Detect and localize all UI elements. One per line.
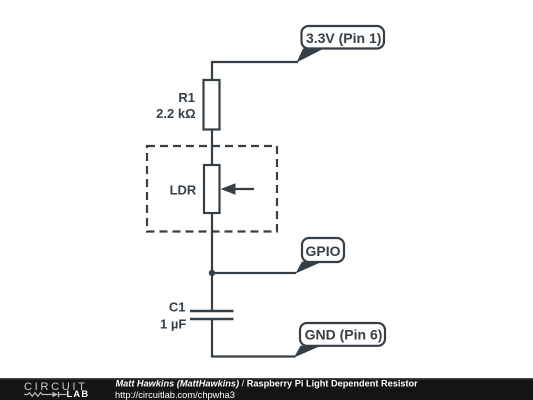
wire junction to GPIO flag — [212, 272, 296, 274]
CircuitLab logo resistor zigzag and diode — [24, 392, 66, 397]
label LDR — [170, 182, 197, 197]
wire R1 to LDR — [211, 130, 213, 166]
label R1 value — [156, 90, 195, 121]
svg-text:1 µF: 1 µF — [160, 316, 186, 331]
node 3.3V (Pin 1) flag — [297, 26, 385, 63]
LDR light arrow — [221, 183, 255, 194]
footer bar — [0, 378, 533, 400]
svg-text:LAB: LAB — [67, 389, 90, 399]
photoresistor LDR dashed enclosure — [147, 146, 277, 232]
CircuitLab logo wordmark LAB — [67, 389, 90, 399]
svg-text:R1: R1 — [178, 90, 195, 105]
label C1 value — [160, 300, 186, 332]
svg-text:LDR: LDR — [170, 182, 197, 197]
node GND (Pin 6) flag — [294, 323, 385, 358]
footer url text — [115, 390, 235, 400]
photoresistor LDR body — [204, 165, 220, 213]
footer title text — [116, 379, 419, 389]
capacitor C1 — [190, 311, 234, 319]
wire C1 to GND flag — [212, 320, 296, 357]
svg-text:2.2 kΩ: 2.2 kΩ — [156, 106, 195, 121]
wire LDR to capacitor C1 — [211, 213, 213, 311]
node GPIO flag — [296, 238, 345, 274]
svg-text:http://circuitlab.com/chpwha3: http://circuitlab.com/chpwha3 — [115, 390, 235, 400]
resistor R1 — [204, 80, 220, 130]
svg-text:3.3V (Pin 1): 3.3V (Pin 1) — [306, 30, 381, 46]
svg-text:C1: C1 — [169, 300, 186, 315]
svg-text:Matt Hawkins (MattHawkins) / R: Matt Hawkins (MattHawkins) / Raspberry P… — [116, 379, 419, 389]
CircuitLab logo wordmark CIRCUIT — [24, 381, 88, 393]
svg-text:GPIO: GPIO — [305, 243, 340, 259]
junction — [209, 270, 215, 276]
svg-text:GND (Pin 6): GND (Pin 6) — [305, 327, 383, 343]
wire from 3.3V flag to resistor R1 top — [212, 62, 298, 80]
